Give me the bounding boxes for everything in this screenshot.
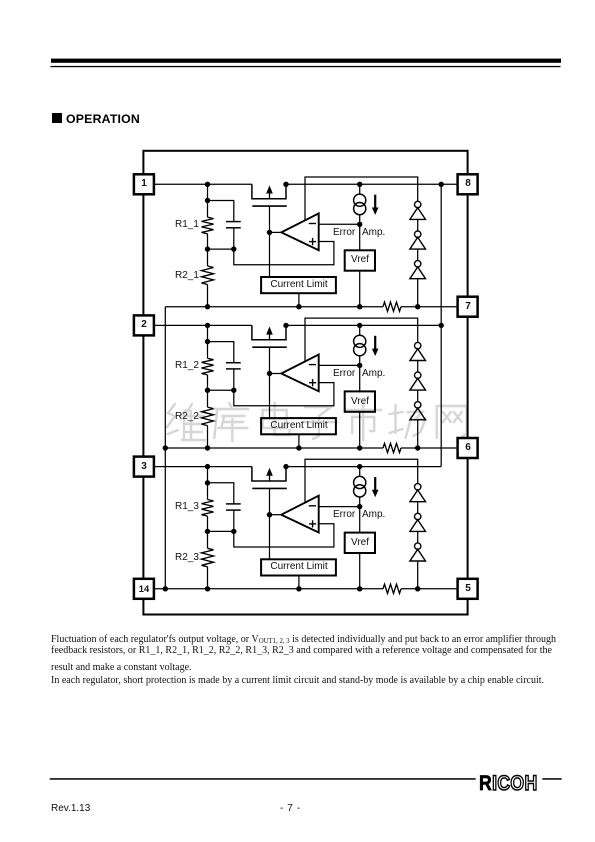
wire - input to Vref node block 1 (319, 223, 360, 225)
junction diode chain/VSS rail block 1 (415, 304, 420, 309)
pin 8 box (458, 174, 478, 194)
junction rail/R1_3 divider block 3 (205, 464, 210, 469)
junction rail/R1_1 divider block 1 (205, 182, 210, 187)
section heading OPERATION square (52, 113, 62, 123)
label Vref block 3 (330, 537, 390, 549)
junction ground bus / VSS rail 3 (163, 586, 168, 591)
diode D1_3 (415, 261, 421, 267)
wire diode chain segment block 3 seg 1 (417, 502, 419, 514)
pin 6 number (438, 442, 498, 454)
current limit block 1 (261, 277, 336, 293)
body paragraph line 1 (51, 634, 556, 645)
pin 3 box (134, 457, 154, 477)
wire R1/R2 junction block 1 (207, 234, 209, 266)
current direction arrow block 1 (374, 195, 376, 209)
wire amp output to gate block 1 (270, 231, 282, 233)
resistor chip-enable R2 (bottom rail) (383, 443, 401, 452)
wire FB node to cap bottom block 3 (208, 530, 234, 532)
wire Vref bottom lead block 3 (359, 553, 361, 589)
pin 2 number (114, 319, 174, 331)
wire R1/R2 junction block 2 (207, 375, 209, 407)
diode D2_1 (415, 342, 421, 348)
current limit block 3 (261, 559, 336, 575)
pin 1 box (134, 174, 154, 194)
wire VIN rail block 1 (MOSFET to pin 8) (286, 183, 458, 185)
pin 5 box (458, 579, 478, 599)
page header thick rule (51, 59, 561, 63)
transistor M2 substrate arrow (266, 327, 273, 335)
junction Vref/VSS rail block 2 (357, 445, 362, 450)
current source I1 (359, 184, 361, 194)
wire inverting input net block 2 (305, 318, 418, 361)
wire current limit bottom lead block 3 (298, 576, 300, 589)
pin 2 box (134, 315, 154, 335)
pin 5 number (438, 583, 498, 595)
wire Vref bottom lead block 2 (359, 412, 361, 448)
junction R2_3/VSS rail (205, 586, 210, 591)
Vref block 2 (345, 391, 375, 411)
junction R2_2/VSS rail (205, 445, 210, 450)
wire R1/R2 junction block 3 (207, 516, 209, 548)
resistor chip-enable R3 (bottom rail) (383, 584, 401, 593)
wire inverting input net block 1 (305, 177, 418, 220)
wire VIN rail block 2 (MOSFET to VDD bus) (286, 324, 441, 326)
wire VSS rail block 1 (165, 306, 383, 308)
wire diode chain segment block 2 seg 2 (417, 390, 419, 402)
junction ground bus / VSS rail 2 (163, 445, 168, 450)
capacitor C2 (226, 362, 241, 364)
wire VIN rail block 1 (pin 1 to MOSFET) (154, 183, 252, 185)
wire amp output to gate block 2 (270, 373, 282, 375)
resistor R1_2 (202, 358, 214, 375)
capacitor C3 (226, 503, 241, 505)
body paragraph line 2 (51, 645, 552, 656)
wire amp output to gate block 3 (270, 514, 282, 516)
junction diode chain/VSS rail block 3 (415, 586, 420, 591)
label R2_1 (175, 270, 199, 282)
node FB3 junction left (205, 529, 210, 534)
junction - input/Vref top block 2 (357, 363, 362, 368)
junction current limit/VSS rail block 1 (296, 304, 301, 309)
Vref block 3 (345, 533, 375, 553)
wire FB node to cap bottom block 1 (208, 248, 234, 250)
transistor M3 (pass PMOS) channel (252, 467, 286, 481)
current limit block 2 (261, 418, 336, 434)
junction MOSFET drain/rail block 1 (283, 182, 288, 187)
junction R2_1/VSS rail (205, 304, 210, 309)
wire Vref top lead block 3 (359, 507, 361, 533)
wire divider top block 2 (207, 325, 209, 358)
resistor chip-enable R1 (bottom rail) (383, 302, 401, 311)
label Vref block 1 (330, 254, 390, 266)
junction - input/Vref top block 3 (357, 504, 362, 509)
transistor M3 substrate arrow (266, 468, 273, 476)
node FB2 junction cap (231, 388, 236, 393)
pin 14 box (134, 579, 154, 599)
footer page number (280, 803, 301, 814)
footer revision (51, 803, 90, 814)
node FB1 junction cap (231, 246, 236, 251)
wire Vref top lead block 2 (359, 365, 361, 391)
RICOH logo (479, 772, 538, 796)
junction VDD bus / rail 2 (439, 323, 444, 328)
capacitor C1 (226, 221, 241, 223)
junction diode chain/VSS rail block 2 (415, 445, 420, 450)
diode D1_1 (415, 201, 421, 207)
junction MOSFET drain/rail block 2 (283, 323, 288, 328)
watermark (167, 403, 467, 441)
node FB1 junction left (205, 246, 210, 251)
pin 6 box (458, 438, 478, 458)
wire inverting input net block 3 (305, 459, 418, 502)
label R2_3 (175, 552, 199, 564)
transistor M1 substrate arrow (266, 185, 273, 193)
transistor M2 (pass PMOS) channel (252, 325, 286, 339)
label error amp block 1 (333, 227, 355, 239)
wire VIN rail block 3 (pin to MOSFET) (154, 466, 252, 468)
label R1_2 (175, 360, 199, 372)
diode D2_2 (415, 372, 421, 378)
label error amp suffix block 3 (362, 509, 385, 521)
label current limit block 1 (259, 279, 339, 291)
footer rule left (50, 778, 476, 780)
body paragraph line 3 (51, 662, 192, 673)
junction VDD bus / rail 1 (439, 182, 444, 187)
wire Vref top lead block 1 (359, 224, 361, 250)
junction Vref/VSS rail block 1 (357, 304, 362, 309)
junction Vref/VSS rail block 3 (357, 586, 362, 591)
wire FB node to cap bottom block 2 (208, 389, 234, 391)
label error amp suffix block 1 (362, 227, 385, 239)
transistor M2 gate bar (252, 346, 286, 348)
label Vref block 2 (330, 396, 390, 408)
wire capacitor top branch block 1 (208, 201, 234, 222)
transistor M3 gate bar (252, 487, 286, 489)
diode D3_2 (415, 513, 421, 519)
pin 7 number (438, 301, 498, 313)
IC boundary box (143, 151, 467, 615)
diode D2_3 (415, 402, 421, 408)
op-amp error amplifier U3 (281, 496, 318, 533)
junction current limit/VSS rail block 2 (296, 445, 301, 450)
wire ground bus left (164, 307, 166, 589)
wire VIN rail block 3 (MOSFET to VDD bus) (286, 466, 441, 468)
label error amp suffix block 2 (362, 368, 385, 380)
page header thin rule (51, 66, 561, 67)
wire divider top block 1 (207, 184, 209, 217)
current direction arrow block 2 (374, 336, 376, 350)
wire diode chain bottom block 1 (417, 279, 419, 307)
wire current limit bottom lead block 2 (298, 434, 300, 448)
wire diode chain bottom block 3 (417, 561, 419, 589)
current source I3 (359, 467, 361, 477)
junction cap branch block 1 (205, 198, 210, 203)
op-amp error amplifier U2 (281, 355, 318, 392)
node gate drive junction block 3 (267, 512, 272, 517)
pin 7 box (458, 297, 478, 317)
wire diode chain bottom block 2 (417, 420, 419, 448)
label R1_3 (175, 501, 199, 513)
wire - input to Vref node block 2 (319, 364, 360, 366)
label error amp block 3 (333, 509, 355, 521)
junction rail/current source block 3 (357, 464, 362, 469)
wire VIN rail block 2 (pin to MOSFET) (154, 324, 252, 326)
pin 8 number (438, 178, 498, 190)
wire Vref bottom lead block 1 (359, 271, 361, 307)
resistor R2_2 (202, 407, 214, 426)
body paragraph line 4 (51, 675, 544, 686)
resistor R2_3 (202, 548, 214, 567)
wire feedback to + input block 3 (234, 524, 334, 547)
diode D3_3 (415, 543, 421, 549)
junction rail/R1_2 divider block 2 (205, 323, 210, 328)
wire capacitor top branch block 3 (208, 483, 234, 504)
wire diode chain segment block 1 seg 1 (417, 219, 419, 231)
diode D3_1 (415, 484, 421, 490)
junction current limit/VSS rail block 3 (296, 586, 301, 591)
pin 14 number (114, 583, 174, 594)
label error amp block 2 (333, 368, 355, 380)
junction rail/current source block 2 (357, 323, 362, 328)
resistor R1_1 (202, 217, 214, 234)
wire VSS rail block 3 (154, 588, 383, 590)
wire current limit bottom lead block 1 (298, 293, 300, 307)
wire divider top block 3 (207, 467, 209, 500)
current direction arrow block 3 (374, 477, 376, 491)
current source I2 (359, 325, 361, 335)
resistor R2_1 (202, 266, 214, 285)
node FB2 junction left (205, 388, 210, 393)
node gate drive junction block 2 (267, 371, 272, 376)
wire - input to Vref node block 3 (319, 506, 360, 508)
section heading OPERATION (66, 112, 140, 126)
Vref block 1 (345, 250, 375, 270)
node FB3 junction cap (231, 529, 236, 534)
transistor M1 (pass PMOS) channel (252, 184, 286, 198)
pin 3 number (114, 461, 174, 473)
junction cap branch block 2 (205, 339, 210, 344)
label R1_1 (175, 219, 199, 231)
junction - input/Vref top block 1 (357, 222, 362, 227)
wire VSS rail block 2 (165, 447, 383, 449)
wire feedback to + input block 1 (234, 242, 334, 265)
wire diode chain segment block 3 seg 2 (417, 531, 419, 543)
junction rail/current source block 1 (357, 182, 362, 187)
wire VDD bus right (440, 184, 442, 466)
wire capacitor top branch block 2 (208, 342, 234, 363)
op-amp error amplifier U1 (281, 213, 318, 250)
label current limit block 2 (259, 420, 339, 432)
diode D1_2 (415, 231, 421, 237)
label R2_2 (175, 411, 199, 423)
transistor M1 gate bar (252, 205, 286, 207)
junction MOSFET drain/rail block 3 (283, 464, 288, 469)
wire diode chain segment block 1 seg 2 (417, 249, 419, 261)
wire diode chain segment block 2 seg 1 (417, 361, 419, 373)
resistor R1_3 (202, 500, 214, 517)
junction cap branch block 3 (205, 480, 210, 485)
wire feedback to + input block 2 (234, 383, 334, 406)
node gate drive junction block 1 (267, 230, 272, 235)
pin 1 number (114, 178, 174, 190)
footer rule right (542, 778, 561, 780)
label current limit block 3 (259, 561, 339, 573)
